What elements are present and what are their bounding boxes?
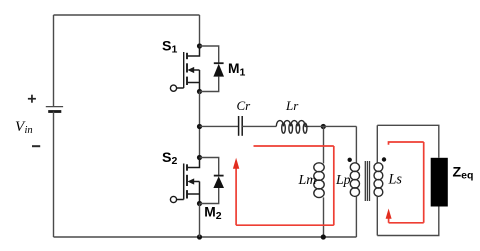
source stub <box>188 193 200 195</box>
arrow of S1 (points to channel) <box>187 67 194 73</box>
diode M1 cathode bar <box>214 62 224 64</box>
capacitor Cr plate left <box>238 116 240 136</box>
channel segment top <box>186 164 188 170</box>
wire: left rail lower <box>53 112 55 238</box>
svg-text:Lp: Lp <box>335 172 351 187</box>
gate lead <box>177 87 184 89</box>
gate terminal circle <box>170 85 176 91</box>
wire: Ls bottom lead <box>376 196 378 235</box>
wire: top bus <box>54 14 200 16</box>
wire: left rail upper <box>53 15 55 107</box>
node: S2 source dot <box>197 201 202 206</box>
load Zeq <box>431 158 448 207</box>
diode M1 branch wires <box>200 46 219 92</box>
transformer core <box>365 161 369 201</box>
loop bottom <box>236 224 334 226</box>
loop top <box>254 145 334 147</box>
loop top with stub <box>389 142 424 145</box>
wire: Lp top lead <box>355 126 357 163</box>
channel segment middle <box>186 63 188 72</box>
node: S1 source dot <box>197 89 202 94</box>
transistor S1 (MOSFET) <box>170 46 199 92</box>
battery Vin plate short thick <box>48 110 61 113</box>
loop left <box>235 165 237 226</box>
svg-text:Lm: Lm <box>298 173 317 188</box>
wire: secondary top <box>377 125 439 158</box>
drain lead <box>188 158 200 168</box>
svg-text:Cr: Cr <box>237 98 252 113</box>
gate lead <box>177 199 184 201</box>
transformer secondary Ls <box>374 125 383 235</box>
inductor Lr coil <box>276 121 308 134</box>
red primary current loop <box>236 146 334 225</box>
svg-text:Ls: Ls <box>388 172 403 188</box>
body stub with arrow <box>193 181 200 183</box>
transformer polarity dot primary <box>348 158 352 162</box>
channel segment top <box>186 53 188 59</box>
loop left stub <box>388 218 390 223</box>
channel segment bottom <box>186 190 188 198</box>
svg-text:Lr: Lr <box>285 98 299 113</box>
wire: Lm top lead <box>323 127 325 164</box>
label + <box>28 95 36 103</box>
wire: midpoint to Cr <box>200 125 239 127</box>
wire: junction to Lp top <box>309 125 357 127</box>
diode M2 cathode bar <box>214 175 224 177</box>
loop right <box>423 142 425 223</box>
channel segment middle <box>186 175 188 186</box>
arrow of S2 (points to channel) <box>187 178 194 184</box>
transistor S2 (MOSFET) <box>170 158 199 204</box>
drain lead <box>188 46 200 56</box>
diode M2 triangle <box>213 176 224 188</box>
source-side vertical <box>199 70 201 92</box>
wire: Lm bottom lead <box>323 197 325 237</box>
wire: midpoint vertical (S1 source to S2 drain) <box>199 92 201 158</box>
gate bar <box>183 52 185 88</box>
gate bar <box>183 164 185 200</box>
wire: secondary bottom <box>377 207 439 236</box>
inductor Lm <box>314 127 324 238</box>
wire: bottom bus <box>54 236 357 238</box>
node: bottom bus / S2 dot <box>197 234 202 239</box>
body stub with arrow <box>193 69 200 71</box>
node: Lr/Lm junction dot <box>321 124 326 129</box>
wire: Ls top lead <box>376 125 378 163</box>
loop right <box>333 146 335 225</box>
red secondary loop arrow <box>386 209 392 219</box>
transformer primary Lp <box>350 126 359 237</box>
wire: Cr to Lr <box>242 125 276 127</box>
red secondary current loop <box>389 142 424 223</box>
wire: Lp bottom lead <box>355 196 357 237</box>
wire: S2 source to bottom bus <box>199 204 201 238</box>
node: S2 drain dot <box>197 155 202 160</box>
source stub <box>188 82 200 84</box>
loop bottom <box>389 222 424 224</box>
diode M1 triangle <box>213 64 224 77</box>
node: S1 drain dot <box>197 43 202 48</box>
capacitor Cr plate right <box>241 116 243 136</box>
node: bottom bus / Lm dot <box>321 234 326 239</box>
transformer polarity dot secondary <box>382 157 386 161</box>
source-side vertical <box>199 182 201 204</box>
node: half-bridge midpoint dot <box>197 124 202 129</box>
diode M2 branch wires <box>200 158 219 204</box>
wire: S1 drain drop <box>199 15 201 46</box>
label minus <box>32 145 40 147</box>
gate terminal circle <box>170 196 176 202</box>
battery Vin plate long <box>46 106 63 108</box>
red primary loop arrow <box>233 158 239 169</box>
channel segment bottom <box>186 77 188 85</box>
